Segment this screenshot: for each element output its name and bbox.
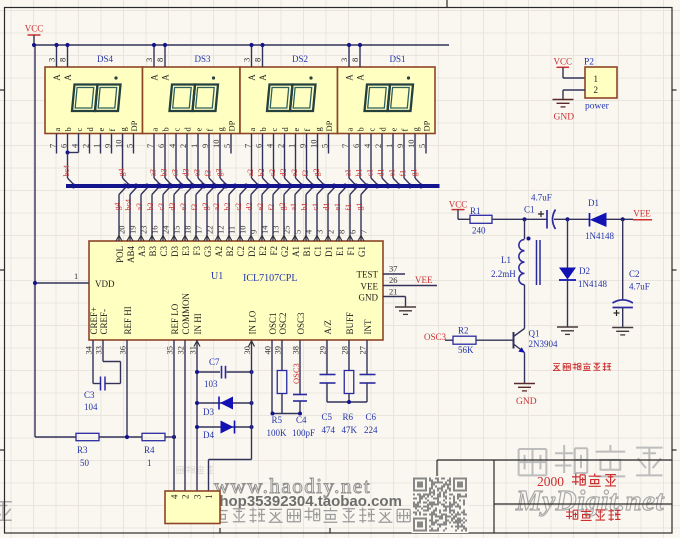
svg-text:GND: GND — [554, 113, 575, 123]
svg-text:14: 14 — [260, 225, 270, 234]
svg-text:f1: f1 — [399, 170, 408, 177]
svg-text:3: 3 — [242, 58, 252, 62]
svg-text:power: power — [585, 102, 610, 112]
svg-text:A: A — [63, 74, 73, 81]
svg-text:BUFF: BUFF — [345, 312, 355, 335]
svg-text:b: b — [356, 127, 366, 131]
svg-text:23: 23 — [139, 226, 149, 235]
svg-text:L1: L1 — [501, 255, 511, 265]
svg-text:15: 15 — [172, 226, 182, 235]
svg-text:9: 9 — [249, 230, 259, 234]
svg-text:c: c — [269, 128, 279, 132]
svg-text:E2: E2 — [258, 246, 268, 256]
svg-text:CREF-: CREF- — [99, 309, 109, 335]
svg-text:E3: E3 — [181, 246, 191, 256]
svg-text:3: 3 — [47, 58, 57, 62]
svg-text:g3: g3 — [215, 169, 224, 177]
svg-text:f: f — [205, 129, 215, 132]
svg-text:8: 8 — [337, 230, 347, 234]
svg-text:bc4: bc4 — [124, 199, 133, 211]
svg-text:a3: a3 — [149, 169, 158, 177]
svg-text:OSC2: OSC2 — [278, 312, 288, 334]
svg-text:37: 37 — [389, 264, 398, 274]
svg-text:A1: A1 — [291, 246, 301, 257]
svg-text:G2: G2 — [280, 246, 290, 257]
svg-text:A: A — [356, 74, 366, 81]
svg-text:50: 50 — [80, 458, 90, 468]
svg-text:A: A — [52, 74, 62, 81]
svg-text:C1: C1 — [524, 205, 535, 215]
svg-text:d2: d2 — [279, 169, 288, 177]
svg-text:1: 1 — [74, 271, 78, 281]
svg-text:104: 104 — [84, 402, 98, 412]
svg-text:e1: e1 — [388, 169, 397, 177]
svg-text:DS4: DS4 — [97, 54, 114, 64]
svg-text:e2: e2 — [290, 169, 299, 177]
svg-text:17: 17 — [194, 226, 204, 235]
svg-text:b1: b1 — [300, 203, 309, 211]
svg-text:D2: D2 — [247, 246, 257, 257]
svg-text:U1: U1 — [211, 271, 223, 282]
svg-text:1N4148: 1N4148 — [578, 279, 607, 289]
svg-text:22: 22 — [205, 226, 215, 235]
svg-text:D3: D3 — [170, 246, 180, 257]
svg-text:REF LO: REF LO — [170, 303, 180, 334]
svg-text:R4: R4 — [144, 445, 155, 455]
svg-text:47K: 47K — [342, 425, 358, 435]
svg-text:8: 8 — [253, 58, 263, 62]
svg-text:d3: d3 — [168, 203, 177, 211]
svg-text:5: 5 — [293, 230, 303, 234]
svg-text:b3: b3 — [160, 169, 169, 177]
svg-text:c: c — [367, 128, 377, 132]
svg-text:E1: E1 — [335, 246, 345, 256]
svg-text:VDD: VDD — [95, 279, 115, 289]
svg-text:F3: F3 — [192, 246, 202, 256]
svg-text:A/Z: A/Z — [323, 320, 333, 335]
svg-text:4.7uF: 4.7uF — [629, 282, 650, 292]
svg-text:d1: d1 — [322, 203, 331, 211]
svg-text:32: 32 — [176, 346, 186, 355]
svg-text:C1: C1 — [313, 246, 323, 257]
svg-text:C2: C2 — [629, 269, 640, 279]
svg-text:B2: B2 — [225, 246, 235, 257]
svg-text:F2: F2 — [269, 246, 279, 256]
svg-text:f3: f3 — [190, 204, 199, 211]
svg-text:OSC3: OSC3 — [424, 332, 447, 342]
svg-text:34: 34 — [84, 345, 94, 354]
svg-text:A: A — [345, 74, 355, 81]
svg-text:27: 27 — [358, 346, 368, 355]
svg-text:18: 18 — [183, 226, 193, 235]
svg-text:39: 39 — [273, 346, 283, 355]
svg-text:c: c — [172, 128, 182, 132]
svg-text:103: 103 — [204, 379, 218, 389]
svg-text:POL: POL — [115, 246, 125, 263]
svg-text:20: 20 — [117, 226, 127, 235]
svg-text:OSC1: OSC1 — [268, 312, 278, 334]
svg-text:f1: f1 — [344, 204, 353, 211]
svg-text:c2: c2 — [234, 203, 243, 211]
svg-text:INT: INT — [363, 319, 373, 334]
svg-text:DP: DP — [227, 120, 237, 131]
svg-text:a: a — [247, 128, 257, 132]
svg-text:d3: d3 — [182, 169, 191, 177]
svg-text:DS2: DS2 — [292, 54, 308, 64]
svg-text:VCC: VCC — [25, 24, 44, 34]
svg-text:19: 19 — [128, 226, 138, 235]
svg-text:D1: D1 — [588, 198, 599, 208]
svg-text:bc4: bc4 — [62, 165, 71, 177]
svg-text:8: 8 — [58, 58, 68, 62]
svg-text:6: 6 — [348, 230, 358, 234]
svg-text:d2: d2 — [245, 203, 254, 211]
svg-text:A: A — [150, 74, 160, 81]
svg-text:R2: R2 — [458, 326, 469, 336]
svg-text:25: 25 — [282, 226, 292, 235]
svg-text:CREF+: CREF+ — [89, 307, 99, 335]
svg-text:Q1: Q1 — [529, 329, 540, 339]
svg-text:DP: DP — [422, 120, 432, 131]
svg-text:REF HI: REF HI — [123, 306, 133, 334]
svg-text:—shop35392304.taobao.com: —shop35392304.taobao.com — [196, 493, 402, 510]
svg-text:36: 36 — [118, 346, 128, 355]
svg-text:VEE: VEE — [361, 282, 379, 292]
svg-text:f: f — [400, 129, 410, 132]
svg-text:24: 24 — [161, 225, 171, 234]
svg-text:C4: C4 — [296, 415, 307, 425]
svg-text:e: e — [96, 128, 106, 132]
svg-text:b3: b3 — [146, 203, 155, 211]
svg-text:G3: G3 — [203, 246, 213, 257]
svg-text:g2: g2 — [278, 203, 287, 211]
svg-text:40: 40 — [263, 346, 273, 355]
svg-text:TEST: TEST — [357, 270, 379, 280]
svg-text:g4: g4 — [117, 169, 126, 177]
svg-text:VEE: VEE — [633, 209, 651, 219]
svg-text:e3: e3 — [193, 169, 202, 177]
svg-text:33: 33 — [94, 346, 104, 355]
svg-text:D2: D2 — [579, 266, 590, 276]
svg-text:4: 4 — [170, 494, 180, 499]
svg-text:e2: e2 — [256, 203, 265, 211]
svg-text:c1: c1 — [366, 169, 375, 177]
svg-text:29: 29 — [318, 346, 328, 355]
svg-text:2000: 2000 — [537, 474, 564, 489]
svg-text:8: 8 — [350, 58, 360, 62]
svg-text:1: 1 — [594, 74, 599, 84]
svg-text:38: 38 — [291, 346, 301, 355]
svg-text:AB4: AB4 — [126, 246, 136, 264]
svg-text:DS3: DS3 — [194, 54, 211, 64]
svg-text:B3: B3 — [148, 246, 158, 257]
svg-text:f: f — [302, 129, 312, 132]
svg-text:11: 11 — [227, 226, 237, 234]
svg-text:a: a — [150, 128, 160, 132]
svg-text:7: 7 — [359, 230, 369, 234]
svg-text:13: 13 — [271, 226, 281, 235]
svg-text:c1: c1 — [311, 203, 320, 211]
svg-text:56K: 56K — [458, 345, 474, 355]
svg-text:a2: a2 — [246, 169, 255, 177]
svg-text:C3: C3 — [159, 246, 169, 257]
svg-text:1N4148: 1N4148 — [585, 231, 614, 241]
svg-text:b: b — [63, 127, 73, 131]
svg-text:e3: e3 — [179, 203, 188, 211]
svg-text:VCC: VCC — [449, 200, 468, 210]
svg-text:MyDigit.net: MyDigit.net — [515, 485, 665, 517]
svg-text:c3: c3 — [171, 169, 180, 177]
svg-text:C6: C6 — [366, 412, 377, 422]
svg-text:IN LO: IN LO — [248, 310, 258, 334]
svg-text:GND: GND — [359, 293, 379, 303]
svg-text:e: e — [389, 128, 399, 132]
svg-text:b1: b1 — [355, 169, 364, 177]
svg-text:b: b — [161, 127, 171, 131]
svg-text:8: 8 — [155, 58, 165, 62]
svg-text:A2: A2 — [214, 246, 224, 257]
svg-text:b: b — [258, 127, 268, 131]
svg-text:g3: g3 — [201, 203, 210, 211]
svg-text:a2: a2 — [212, 203, 221, 211]
svg-text:R6: R6 — [343, 412, 354, 422]
svg-text:26: 26 — [389, 275, 398, 285]
svg-text:c: c — [74, 128, 84, 132]
svg-text:A: A — [247, 74, 257, 81]
svg-text:a: a — [52, 128, 62, 132]
svg-text:D3: D3 — [203, 407, 214, 417]
svg-text:A: A — [161, 74, 171, 81]
svg-text:f3: f3 — [204, 170, 213, 177]
svg-text:C7: C7 — [209, 357, 220, 367]
svg-text:b2: b2 — [257, 169, 266, 177]
svg-text:35: 35 — [165, 346, 175, 355]
svg-text:2N3904: 2N3904 — [529, 339, 558, 349]
svg-text:f2: f2 — [267, 204, 276, 211]
svg-text:OSC3: OSC3 — [296, 312, 306, 335]
svg-text:28: 28 — [340, 346, 350, 355]
svg-text:e: e — [194, 128, 204, 132]
svg-text:R3: R3 — [77, 445, 88, 455]
svg-text:b2: b2 — [223, 203, 232, 211]
svg-text:a1: a1 — [289, 203, 298, 211]
svg-text:ICL7107CPL: ICL7107CPL — [243, 273, 297, 284]
svg-text:P2: P2 — [584, 58, 594, 68]
svg-text:224: 224 — [364, 425, 378, 435]
svg-text:31: 31 — [188, 346, 198, 355]
svg-text:g4: g4 — [113, 203, 122, 211]
svg-text:g1: g1 — [410, 169, 419, 177]
svg-text:100K: 100K — [267, 428, 288, 438]
svg-text:100pF: 100pF — [292, 428, 315, 438]
svg-text:f: f — [107, 129, 117, 132]
svg-text:474: 474 — [322, 425, 336, 435]
svg-text:a3: a3 — [135, 203, 144, 211]
svg-text:4.7uF: 4.7uF — [531, 193, 552, 203]
svg-text:16: 16 — [150, 226, 160, 235]
svg-text:C2: C2 — [236, 246, 246, 257]
svg-text:c2: c2 — [268, 169, 277, 177]
svg-text:3: 3 — [315, 230, 325, 234]
svg-text:3: 3 — [339, 58, 349, 62]
svg-text:DS1: DS1 — [389, 54, 405, 64]
svg-text:e1: e1 — [333, 203, 342, 211]
svg-text:3: 3 — [144, 58, 154, 62]
svg-text:2: 2 — [594, 85, 599, 95]
svg-text:COMMON: COMMON — [181, 292, 191, 334]
svg-text:a: a — [345, 128, 355, 132]
svg-text:2.2mH: 2.2mH — [491, 269, 516, 279]
svg-text:1: 1 — [147, 458, 152, 468]
svg-text:1: 1 — [204, 495, 214, 500]
svg-text:G1: G1 — [357, 246, 367, 257]
svg-text:R5: R5 — [272, 415, 283, 425]
svg-text:12: 12 — [216, 226, 226, 235]
svg-text:g2: g2 — [312, 169, 321, 177]
svg-text:e: e — [291, 128, 301, 132]
svg-text:DP: DP — [324, 120, 334, 131]
svg-text:DP: DP — [129, 120, 139, 131]
svg-text:C3: C3 — [84, 390, 95, 400]
svg-text:a1: a1 — [344, 169, 353, 177]
svg-text:VEE: VEE — [415, 275, 433, 285]
svg-text:D4: D4 — [203, 430, 214, 440]
svg-text:R1: R1 — [470, 206, 481, 216]
svg-text:B1: B1 — [302, 246, 312, 257]
svg-text:IN HI: IN HI — [193, 313, 203, 334]
svg-text:240: 240 — [472, 226, 486, 236]
svg-text:F1: F1 — [346, 246, 356, 256]
svg-text:d1: d1 — [377, 169, 386, 177]
svg-text:GND: GND — [516, 397, 537, 407]
svg-text:C5: C5 — [322, 412, 333, 422]
svg-text:f2: f2 — [301, 170, 310, 177]
svg-text:A3: A3 — [137, 246, 147, 257]
svg-text:10: 10 — [238, 226, 248, 235]
svg-text:D1: D1 — [324, 246, 334, 257]
svg-text:30: 30 — [242, 346, 252, 355]
svg-text:2: 2 — [181, 495, 191, 500]
svg-text:A: A — [258, 74, 268, 81]
svg-text:2: 2 — [326, 230, 336, 234]
svg-text:OSC3: OSC3 — [291, 363, 301, 384]
svg-text:c3: c3 — [157, 203, 166, 211]
svg-text:VCC: VCC — [554, 57, 573, 67]
svg-text:3: 3 — [193, 494, 203, 499]
svg-text:21: 21 — [389, 287, 398, 297]
svg-text:g1: g1 — [355, 203, 364, 211]
